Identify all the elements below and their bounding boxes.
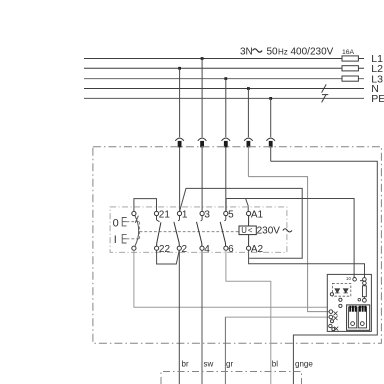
connector X1 pin (L2) (178, 141, 182, 148)
actuator contact arc (135, 216, 139, 246)
wire 22-2 bridge (157, 250, 180, 264)
bus L2 (84, 67, 364, 69)
svg-text:1: 1 (182, 209, 188, 220)
module internal terminal a (339, 298, 342, 301)
wire sw down (201, 250, 203, 384)
wire L3 tap down (225, 79, 227, 138)
connector X2 socket arc (L1) (198, 138, 207, 141)
module left terminal (N) (329, 310, 333, 314)
wire A2 to module (249, 250, 365, 278)
wire 6 to bl (226, 250, 271, 384)
connector X3 socket arc (L3) (222, 138, 231, 141)
wire A1 feed diagonal (246, 199, 249, 212)
switch S1 boundary (dash-dot) (110, 207, 287, 252)
wire L1 pin to contact 3 (201, 147, 203, 211)
svg-text:bl: bl (272, 359, 278, 368)
detent symbol position I (122, 235, 126, 243)
svg-text:gnge: gnge (295, 359, 313, 368)
module diode D1 (335, 289, 340, 293)
fuse F1 (L1) (342, 56, 358, 61)
module crimp splice marks (334, 311, 339, 330)
svg-text:PE: PE (371, 93, 384, 105)
svg-text:4: 4 (204, 244, 210, 255)
actuator blade tick (135, 216, 138, 223)
connector X2 pin (L1) (200, 141, 204, 148)
wire N tap down (247, 89, 249, 138)
module terminal T1 (353, 278, 357, 282)
svg-text:3: 3 (204, 209, 210, 220)
contact 5-6 (NO) (220, 211, 228, 250)
node dot L2 tap (178, 67, 181, 70)
actuator terminal bottom (132, 246, 136, 250)
svg-text:5: 5 (228, 209, 234, 220)
contact 21-22 (NC) (154, 211, 161, 250)
wire L3 pin to contact 5 (225, 147, 227, 211)
svg-text:21: 21 (159, 209, 171, 220)
wire A: N feed to module (248, 177, 329, 312)
svg-text:0: 0 (113, 217, 119, 229)
svg-text:50: 50 (267, 47, 279, 58)
svg-text:6: 6 (228, 244, 234, 255)
svg-text:3N: 3N (240, 47, 253, 58)
contact 3-4 (NO) (197, 211, 205, 250)
wire L2 tap down (179, 68, 181, 137)
module internal terminal b (339, 304, 342, 307)
wire N pin to node A (247, 147, 249, 176)
svg-text:22: 22 (159, 244, 171, 255)
module T2 dash mark (360, 280, 363, 282)
actuator terminal top (132, 211, 136, 215)
PE conductor slash with bar (322, 94, 329, 102)
label 230V~ (257, 225, 292, 236)
connector X4 pin (N) (247, 141, 251, 148)
contact 1-2 (NO) (174, 211, 182, 250)
bus L1 (84, 58, 364, 60)
svg-text:10: 10 (346, 276, 351, 281)
svg-text:Hz: Hz (278, 48, 288, 57)
module terminal block (347, 305, 370, 330)
module terminal T2 pair (363, 278, 367, 282)
connector X5 pin (PE) (269, 141, 273, 148)
mechanical linkage dashes (127, 222, 240, 239)
load connector box (bottom, dash-dot) (161, 372, 302, 384)
module dashed box left terminal (330, 293, 333, 296)
wire PE tap down (270, 98, 272, 137)
bridge actuator to 21 (134, 199, 157, 212)
detent symbol position 0 (122, 218, 126, 226)
module diode D2 (343, 289, 348, 293)
module relay contacts dashed box (332, 283, 350, 296)
svg-text:br: br (182, 359, 189, 368)
wire L1 tap down (201, 59, 203, 138)
node dot N tap (247, 87, 250, 90)
svg-text:U<: U< (241, 226, 253, 235)
connector X3 pin (L3) (224, 141, 228, 148)
svg-text:gr: gr (226, 359, 233, 368)
wire B: contact 1 to A2 node (180, 188, 303, 258)
bus N (84, 88, 364, 90)
connector X5 socket arc (PE) (266, 138, 275, 141)
svg-text:sw: sw (204, 359, 214, 368)
wire PE routing to right edge and down to gnge (271, 161, 378, 384)
N conductor slash (322, 84, 327, 92)
svg-text:2: 2 (182, 244, 188, 255)
connector X4 socket arc (N) (244, 138, 253, 141)
node dot L3 tap (224, 77, 227, 80)
wire gr from module (225, 316, 329, 318)
module left terminal (gr) (329, 315, 333, 319)
svg-text:400/230V: 400/230V (291, 47, 334, 58)
svg-text:230V: 230V (257, 225, 281, 236)
wire L2 pin to contact 1 (179, 147, 181, 211)
bus PE (84, 97, 364, 99)
wire PE from pin down (270, 147, 272, 161)
connector X1 socket arc (L2) (175, 138, 184, 141)
bus L3 (84, 78, 364, 80)
wire br down (178, 250, 180, 384)
wire actuator bottom to module left (134, 250, 327, 307)
fuse F2 (L2) (342, 66, 358, 71)
svg-text:16A: 16A (342, 49, 355, 56)
node dot L1 tap (201, 57, 204, 60)
undervoltage release coil U< (239, 211, 256, 250)
node dot PE tap (269, 97, 272, 100)
control module A1 box (327, 274, 371, 331)
module resistor (363, 284, 365, 287)
svg-text:A2: A2 (251, 244, 264, 255)
fuse F3 (L3) (342, 76, 358, 81)
label 3N~ 50Hz 400/230V (240, 47, 334, 58)
enclosure boundary (dash-dot box) (93, 147, 382, 344)
module resistor bottom terminal (363, 298, 367, 302)
svg-text:I: I (114, 234, 117, 246)
wire C: contact 5 bridge to A1 and module (226, 199, 354, 278)
svg-text:A1: A1 (251, 209, 264, 220)
